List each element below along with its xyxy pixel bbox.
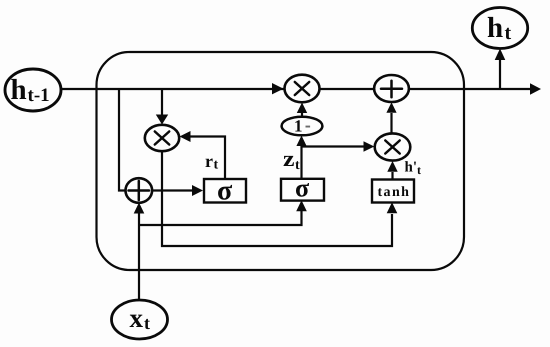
svg-text:1: 1 <box>294 117 303 136</box>
svg-text:t-1: t-1 <box>28 85 50 106</box>
svg-text:h': h' <box>405 160 418 176</box>
svg-text:t: t <box>417 163 421 177</box>
svg-text:h: h <box>487 12 503 44</box>
svg-text:r: r <box>205 151 213 171</box>
svg-text:tanh: tanh <box>378 185 411 200</box>
svg-text:z: z <box>283 146 295 171</box>
svg-text:h: h <box>11 74 27 106</box>
svg-text:t: t <box>295 158 300 173</box>
svg-text:t: t <box>505 22 512 44</box>
svg-text:t: t <box>214 158 219 173</box>
svg-text:σ: σ <box>295 174 309 203</box>
svg-text:t: t <box>144 313 150 333</box>
svg-text:x: x <box>130 303 144 333</box>
svg-text:σ: σ <box>217 176 233 207</box>
